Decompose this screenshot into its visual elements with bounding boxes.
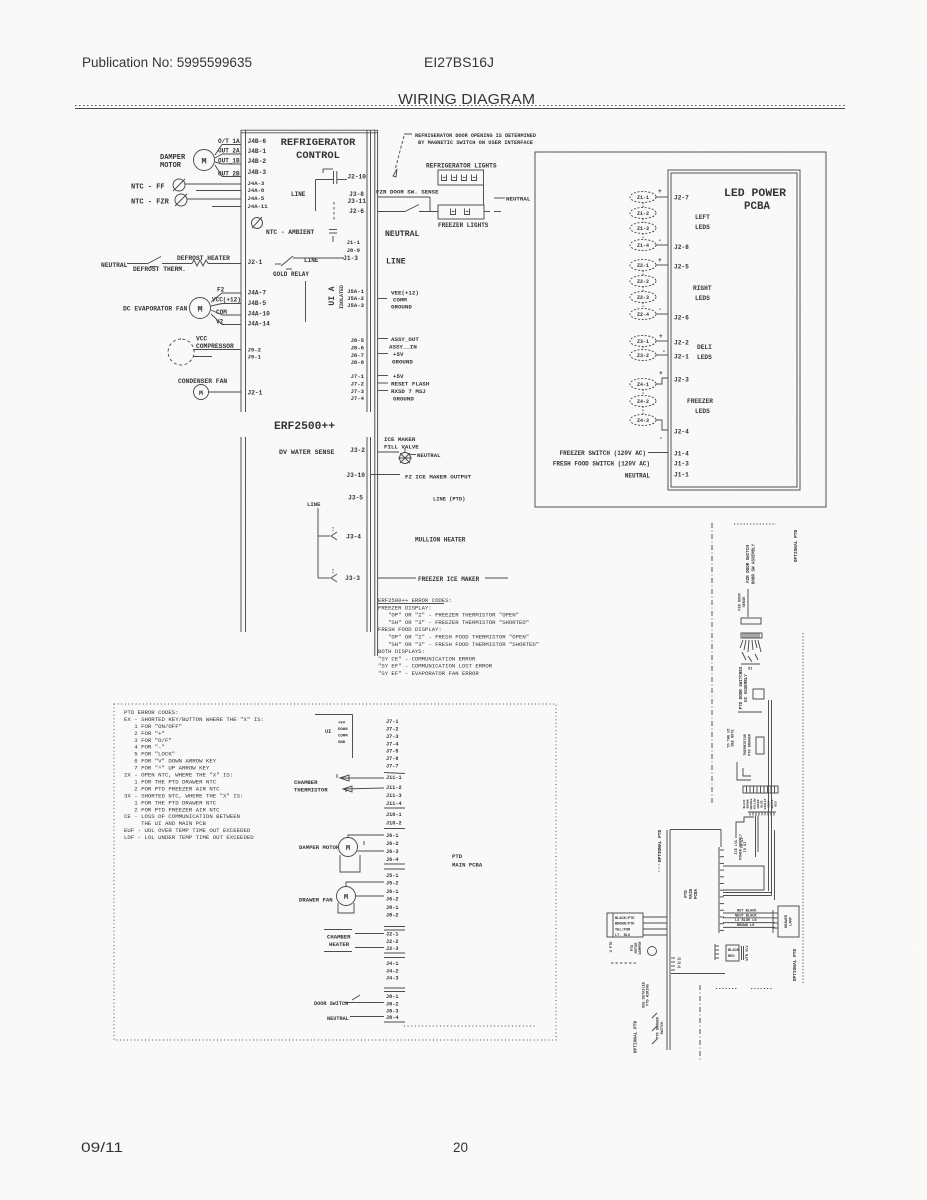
separator line 2: [384, 807, 405, 809]
svg-text:BROWN/PTD: BROWN/PTD: [615, 922, 635, 927]
svg-text:J5-2: J5-2: [386, 881, 398, 887]
chamber thermistor wires: [340, 777, 384, 779]
svg-text:J4B-5: J4B-5: [248, 300, 267, 307]
damper motor ptd wires: [348, 835, 384, 838]
svg-text:J1-3: J1-3: [343, 255, 358, 262]
svg-text:REFRIGERATOR DOOR OPENING IS D: REFRIGERATOR DOOR OPENING IS DETERMINED: [415, 133, 536, 139]
svg-text:"SY EF" - COMMUNICATION LOST E: "SY EF" - COMMUNICATION LOST ERROR: [378, 663, 493, 670]
wire under block a: [738, 711, 762, 713]
svg-text:FZR DOOR SWITCH: FZR DOOR SWITCH: [747, 545, 751, 583]
led power outer box: [535, 152, 826, 507]
svg-text:J4B-6: J4B-6: [248, 138, 267, 145]
svg-text:ERF2500++ ERROR CODES:: ERF2500++ ERROR CODES:: [378, 597, 452, 604]
svg-text:J8-6: J8-6: [351, 345, 365, 352]
svg-text:J8-2: J8-2: [386, 1002, 398, 1008]
svg-text:2 FOR PTD FREEZER AIR NTC: 2 FOR PTD FREEZER AIR NTC: [124, 785, 220, 792]
svg-text:NTC - FZR: NTC - FZR: [131, 199, 170, 207]
svg-text:LED POWER: LED POWER: [724, 188, 786, 200]
svg-text:FREEZER ICE MAKER: FREEZER ICE MAKER: [418, 576, 480, 583]
svg-text:J11-3: J11-3: [386, 793, 402, 799]
right dense section: [607, 523, 803, 1062]
svg-text:POWER SUPPLY: POWER SUPPLY: [740, 833, 744, 860]
led Z3-1: [630, 336, 656, 347]
svg-text:J6-1: J6-1: [386, 889, 398, 895]
separator double 4: [384, 987, 405, 989]
led Z2-2: [630, 276, 656, 287]
svg-text:VCC: VCC: [196, 336, 208, 343]
svg-text:J1-4: J1-4: [674, 451, 689, 458]
svg-text:ICE LVL: ICE LVL: [735, 839, 739, 854]
svg-text:+: +: [659, 370, 663, 377]
svg-text:J4A-14: J4A-14: [248, 321, 271, 328]
harness wires: [643, 916, 667, 918]
svg-text:J2-6: J2-6: [349, 208, 364, 215]
svg-text:NEUTRAL: NEUTRAL: [385, 230, 419, 239]
svg-text:TO UI: TO UI: [744, 842, 748, 853]
svg-text:Z3-1: Z3-1: [637, 339, 649, 345]
lamp symbols freezer: [451, 209, 456, 215]
svg-text:J9-1: J9-1: [248, 354, 262, 361]
drawer fan wires: [346, 882, 384, 887]
svg-text:J4A-5: J4A-5: [248, 195, 265, 202]
refrigerator control box border left: [240, 130, 242, 412]
relay arrow freezer ice maker: [331, 574, 337, 582]
footer: [81, 1140, 468, 1155]
wire Z3-1 to J2-2: [656, 340, 668, 342]
dotted vertical below optional: [658, 845, 660, 872]
defrost wire to box: [208, 263, 241, 265]
freezer lights box: [438, 205, 484, 219]
svg-text:J11-1: J11-1: [386, 775, 402, 781]
svg-text:+: +: [659, 333, 663, 340]
svg-text:J2-3: J2-3: [386, 946, 398, 952]
svg-text:J8-9: J8-9: [347, 247, 361, 254]
ntc fzr wires: [187, 198, 241, 200]
gold relay wire down: [305, 281, 307, 322]
svg-text:FRESH FOOD SWITCH (120V AC): FRESH FOOD SWITCH (120V AC): [553, 461, 650, 468]
led Z4-3: [630, 415, 656, 426]
svg-text:J4-1: J4-1: [386, 961, 398, 967]
svg-text:FZ ICE MAKER OUTPUT: FZ ICE MAKER OUTPUT: [405, 474, 472, 481]
relay arrow mullion: [331, 532, 337, 540]
connector bar: [741, 618, 761, 624]
svg-text:COMM: COMM: [338, 735, 348, 739]
svg-text:J2-5: J2-5: [674, 264, 689, 271]
svg-text:J8-7: J8-7: [351, 352, 364, 359]
svg-text:UI: UI: [748, 668, 752, 672]
svg-text:RED: RED: [728, 955, 735, 959]
svg-text:ASSY__IN: ASSY__IN: [389, 344, 417, 351]
svg-text:LINE: LINE: [307, 501, 321, 508]
svg-text:LEDS: LEDS: [697, 354, 712, 361]
svg-text:NTC - AMBIENT: NTC - AMBIENT: [266, 229, 315, 236]
svg-text:NEUTRAL: NEUTRAL: [625, 473, 651, 480]
svg-text:LEDS: LEDS: [695, 224, 710, 231]
step wires to rail: [736, 817, 754, 838]
wire neutral line lower: [378, 211, 405, 213]
svg-text:PCBA: PCBA: [695, 888, 699, 899]
gold relay contact: [275, 263, 281, 265]
damper motor ptd circle: [339, 838, 358, 857]
connector comb 1: [741, 633, 762, 638]
svg-text:2X - OPEN NTC, WHERE THE "X" I: 2X - OPEN NTC, WHERE THE "X" IS:: [124, 772, 233, 779]
svg-text:DEFROST HEATER: DEFROST HEATER: [177, 255, 230, 262]
note leader line: [404, 133, 412, 135]
svg-text:SENSE: SENSE: [743, 596, 747, 608]
fill valve symbol: [400, 453, 411, 464]
svg-text:OUT 2A: OUT 2A: [218, 148, 240, 155]
small connector block b: [756, 737, 764, 754]
svg-text:J2-1: J2-1: [248, 390, 263, 397]
ntc ff wires: [185, 183, 241, 185]
svg-text:F2: F2: [217, 287, 225, 294]
svg-text:J7-6: J7-6: [386, 756, 398, 762]
svg-text:-: -: [658, 237, 662, 244]
svg-text:Z1-3: Z1-3: [637, 226, 649, 232]
condenser fan M: [194, 385, 209, 400]
svg-text:+5V: +5V: [393, 351, 404, 358]
dc evaporator fan M: [190, 298, 211, 319]
svg-text:CONDENSER FAN: CONDENSER FAN: [178, 378, 227, 385]
svg-text:NEUTRAL: NEUTRAL: [327, 1016, 349, 1022]
led Z3-2: [630, 350, 656, 361]
small connector bottom left of rail: [714, 944, 716, 960]
svg-text:UI: UI: [325, 729, 331, 735]
wire freezer ice maker: [378, 577, 416, 579]
svg-text:DRAWER FAN: DRAWER FAN: [299, 897, 333, 904]
svg-text:LEDS: LEDS: [695, 408, 710, 415]
scan noise overlay: [0, 0, 1, 1]
svg-text:J7-2: J7-2: [386, 727, 398, 733]
left components: [101, 138, 241, 400]
svg-text:J2-1: J2-1: [674, 354, 689, 361]
svg-text:PTD DRAWER: PTD DRAWER: [749, 733, 753, 755]
ptd box dotted border: [114, 704, 556, 1040]
comb3 drop wires: [755, 816, 757, 858]
svg-text:VEE(+12): VEE(+12): [391, 290, 419, 297]
svg-text:"OP" OR "2" - FREEZER THERMIST: "OP" OR "2" - FREEZER THERMISTOR "OPEN": [378, 612, 519, 619]
separator double 1: [384, 863, 405, 865]
svg-text:Z2-3: Z2-3: [637, 295, 649, 301]
svg-text:J7-2: J7-2: [351, 381, 365, 388]
svg-text:GROUND: GROUND: [391, 304, 412, 311]
svg-text:GROUND: GROUND: [393, 396, 414, 403]
svg-text:DAMPER MOTOR: DAMPER MOTOR: [299, 844, 340, 851]
svg-text:J4-3: J4-3: [386, 976, 398, 982]
svg-text:J4-2: J4-2: [386, 969, 398, 975]
svg-text:LEFT: LEFT: [695, 214, 710, 221]
svg-text:COMM: COMM: [393, 297, 407, 304]
svg-text:+5V: +5V: [338, 722, 346, 726]
svg-text:BROWN LG: BROWN LG: [737, 924, 754, 928]
svg-text:PTD ERROR CODES:: PTD ERROR CODES:: [124, 709, 179, 716]
wire Z1-1 to J2-7: [656, 196, 668, 198]
damper motor M: [194, 150, 215, 171]
step wires upper: [737, 762, 751, 780]
svg-text:Publication No: 5995599635: Publication No: 5995599635: [82, 55, 252, 70]
svg-text:THERMISTOR: THERMISTOR: [744, 733, 748, 755]
drawer fan circle: [337, 887, 356, 906]
svg-text:J3-3: J3-3: [345, 575, 360, 582]
svg-text:Z4-1: Z4-1: [637, 382, 649, 388]
svg-text:DEFROST THERM.: DEFROST THERM.: [133, 266, 186, 273]
svg-text:M: M: [197, 305, 202, 315]
svg-text:J1-1: J1-1: [674, 472, 689, 479]
svg-text:GROUND: GROUND: [392, 359, 413, 366]
separator line 1: [384, 773, 405, 774]
ptd box: [114, 704, 556, 1040]
svg-text:4 FOR "-": 4 FOR "-": [124, 744, 165, 751]
svg-text:NEUTRAL: NEUTRAL: [506, 196, 531, 203]
svg-text:L4 BLUE LG: L4 BLUE LG: [735, 919, 757, 923]
wire Z4-1 to J2-3: [656, 378, 668, 384]
led chain link Z3: [642, 347, 644, 350]
ntc ff thermistor: [173, 179, 185, 191]
led power pcba box double border: [668, 170, 800, 490]
svg-text:OPTIONAL PTD: OPTIONAL PTD: [633, 1020, 639, 1053]
svg-text:J8-5: J8-5: [351, 337, 365, 344]
svg-text:CHAMBER: CHAMBER: [294, 779, 318, 786]
wire Z3-2 to J2-1: [656, 354, 668, 356]
svg-text:J3-4: J3-4: [346, 534, 361, 541]
svg-text:Z1-4: Z1-4: [637, 243, 649, 249]
svg-text:MAIN PCBA: MAIN PCBA: [452, 862, 483, 869]
led Z2-1: [630, 260, 656, 271]
svg-text:FREEZER: FREEZER: [687, 398, 713, 405]
svg-text:DOOR SW ASSEMBLY: DOOR SW ASSEMBLY: [753, 543, 757, 584]
svg-text:M: M: [201, 157, 206, 167]
wire to fill valve: [378, 451, 399, 453]
svg-text:J6-4: J6-4: [386, 857, 398, 863]
svg-text:20: 20: [453, 1140, 468, 1155]
svg-text:FREEZER DISPLAY:: FREEZER DISPLAY:: [378, 604, 432, 611]
svg-text:J5A-2: J5A-2: [347, 295, 364, 302]
svg-text:J4B-1: J4B-1: [248, 148, 267, 155]
svg-text:09/11: 09/11: [81, 1140, 123, 1155]
svg-text:J2-1: J2-1: [248, 259, 263, 266]
relay coil dashes: [333, 202, 335, 222]
svg-text:J7-1: J7-1: [351, 373, 365, 380]
led Z1-1: [630, 192, 656, 203]
dash-dot vertical lower: [699, 985, 701, 1062]
branch mullion: [318, 535, 330, 537]
svg-text:"SY EF" - EVAPORATOR FAN ERROR: "SY EF" - EVAPORATOR FAN ERROR: [378, 670, 479, 677]
svg-text:J7-4: J7-4: [351, 395, 365, 402]
pin ticks column: [671, 957, 675, 959]
svg-text:Z2-2: Z2-2: [637, 279, 649, 285]
svg-text:Z3-2: Z3-2: [637, 353, 649, 359]
wire lower horizontal: [671, 973, 725, 975]
svg-text:J7-1: J7-1: [386, 719, 398, 725]
svg-text:BY MAGNETIC SWITCH ON USER INT: BY MAGNETIC SWITCH ON USER INTERFACE: [418, 140, 533, 146]
svg-text:LOF - LOL UNDER TEMP TIME OUT: LOF - LOL UNDER TEMP TIME OUT EXCEEDED: [124, 834, 254, 841]
svg-text:REFRIGERATOR LIGHTS: REFRIGERATOR LIGHTS: [426, 163, 497, 170]
svg-text:GND: GND: [338, 741, 346, 745]
labeled wires to lamp: [723, 912, 775, 914]
svg-text:PTD WIRING: PTD WIRING: [647, 984, 651, 1006]
svg-text:DOOR SWITCH: DOOR SWITCH: [314, 1001, 348, 1007]
drawer lamp box: [778, 906, 799, 937]
svg-text:OPTIONAL PTD: OPTIONAL PTD: [657, 829, 663, 862]
svg-text:REFRIGERATOR: REFRIGERATOR: [281, 137, 357, 149]
svg-text:CONTROL: CONTROL: [296, 150, 340, 162]
led chain links Z4: [642, 390, 644, 396]
optional boundary dotted vertical: [802, 633, 804, 985]
svg-text:MOTOR: MOTOR: [160, 162, 182, 170]
svg-text:J2-10: J2-10: [347, 174, 366, 181]
small connector block a: [753, 689, 764, 699]
vee comm ground labels: [378, 298, 387, 300]
svg-text:J1-1: J1-1: [347, 239, 361, 246]
svg-text:BLACK: BLACK: [728, 949, 740, 953]
svg-text:J4A-7: J4A-7: [248, 290, 267, 297]
relay contact horizontal bars: [329, 229, 337, 231]
svg-text:J5A-1: J5A-1: [347, 288, 364, 295]
led Z4-1: [630, 379, 656, 390]
relay contact bars: [333, 171, 335, 184]
svg-text:M: M: [344, 894, 348, 902]
svg-text:J7-3: J7-3: [351, 388, 365, 395]
svg-text:J7-4: J7-4: [386, 742, 398, 748]
svg-text:J8-4: J8-4: [386, 1015, 398, 1021]
svg-text:J2-4: J2-4: [674, 429, 689, 436]
svg-text:HOT BLACK: HOT BLACK: [737, 910, 757, 914]
svg-text:BOTH DISPLAYS:: BOTH DISPLAYS:: [378, 648, 425, 655]
svg-text:DAMPER: DAMPER: [639, 941, 643, 955]
flash group labels: [378, 375, 388, 377]
svg-text:Z4-3: Z4-3: [637, 418, 649, 424]
optional boundary dash-dot vertical upper: [711, 523, 713, 803]
svg-text:PTD: PTD: [685, 890, 689, 898]
led Z2-3: [630, 292, 656, 303]
svg-text:FILL VALVE: FILL VALVE: [384, 444, 419, 451]
svg-text:"SY CE" - COMMUNICATION ERROR: "SY CE" - COMMUNICATION ERROR: [378, 655, 476, 662]
svg-text:J4A-8: J4A-8: [248, 187, 265, 194]
svg-text:J3-2: J3-2: [350, 447, 365, 454]
svg-text:J5-1: J5-1: [386, 873, 398, 879]
svg-text:FRESH FOOD DISPLAY:: FRESH FOOD DISPLAY:: [378, 626, 442, 633]
svg-text:MULLION HEATER: MULLION HEATER: [415, 537, 466, 544]
svg-text:LINE: LINE: [291, 191, 306, 198]
svg-text:LEDS: LEDS: [695, 295, 710, 302]
defrost thermostat contact: [147, 257, 161, 265]
svg-text:OPTIONAL PTD: OPTIONAL PTD: [793, 529, 799, 562]
water valve box: [726, 945, 739, 961]
wire fan base line: [741, 663, 760, 665]
wire console switch: [747, 589, 749, 617]
condenser fan wire: [209, 391, 242, 393]
svg-text:UI ASSEMBLY: UI ASSEMBLY: [745, 674, 749, 702]
refrigerator control section: [241, 130, 378, 656]
svg-text:J10-2: J10-2: [386, 821, 402, 827]
internal line wire to J2-10: [323, 168, 333, 170]
dotted horizontals lower: [716, 988, 737, 990]
svg-text:CE - LOSS OF COMMUNICATION BET: CE - LOSS OF COMMUNICATION BETWEEN: [124, 813, 240, 820]
compressor wires: [193, 349, 241, 351]
svg-text:J2-2: J2-2: [386, 939, 398, 945]
wire Z1-4 to J2-8: [656, 244, 668, 246]
svg-text:PTD DRAWER: PTD DRAWER: [657, 1016, 661, 1038]
bus wires vertical: [768, 700, 770, 891]
svg-text:J4B-3: J4B-3: [248, 169, 267, 176]
svg-text:GOLD RELAY: GOLD RELAY: [273, 271, 309, 278]
svg-text:J2-8: J2-8: [674, 244, 689, 251]
svg-text:DC EVAPORATOR FAN: DC EVAPORATOR FAN: [123, 306, 187, 313]
svg-text:COMPRESSOR: COMPRESSOR: [196, 343, 234, 350]
svg-text:J2-2: J2-2: [674, 340, 689, 347]
svg-text:J6-2: J6-2: [386, 897, 398, 903]
svg-text:J8-2: J8-2: [386, 913, 398, 919]
svg-text:ICE MAKER: ICE MAKER: [384, 436, 416, 443]
svg-text:MAIN: MAIN: [690, 888, 694, 899]
svg-text:RESET FLASH: RESET FLASH: [391, 381, 430, 388]
svg-text:J3-11: J3-11: [347, 198, 366, 205]
svg-text:SWITCH: SWITCH: [661, 1022, 665, 1035]
separator double 3: [384, 952, 405, 954]
svg-text:PCBA: PCBA: [744, 201, 770, 213]
connector comb 2: [743, 786, 778, 793]
svg-text:FZR DOOR SW. SENSE: FZR DOOR SW. SENSE: [376, 189, 439, 196]
wire contact to rail: [337, 179, 347, 181]
svg-text:NEUT BLACK: NEUT BLACK: [735, 914, 757, 918]
wire Z2-1 to J2-5: [656, 264, 668, 266]
svg-text:Z4-2: Z4-2: [637, 399, 649, 405]
svg-text:J8-8: J8-8: [351, 359, 365, 366]
svg-text:J3-10: J3-10: [346, 472, 365, 479]
svg-text:+5V: +5V: [393, 373, 404, 380]
door switch wire: [344, 1002, 384, 1004]
svg-text:J4B-2: J4B-2: [248, 158, 267, 165]
pin J1-4: [648, 452, 668, 454]
svg-text:J7-7: J7-7: [386, 764, 398, 770]
led Z1-3: [630, 223, 656, 234]
svg-text:LINE: LINE: [386, 258, 406, 267]
refrigerator control box border right: [366, 130, 368, 412]
header publication number: [75, 55, 845, 109]
svg-text:M: M: [346, 845, 350, 853]
svg-text:HEATER: HEATER: [329, 941, 350, 948]
ptd damper motor circle: [648, 947, 657, 956]
svg-text:BLACK/PTD: BLACK/PTD: [615, 916, 635, 921]
dashed wire: [611, 962, 637, 964]
svg-text:J1: J1: [677, 965, 681, 969]
svg-text:"OP" OR "2" - FRESH FOOD THERM: "OP" OR "2" - FRESH FOOD THERMISTOR "OPE…: [378, 634, 529, 641]
wire valve to neutral: [410, 454, 416, 456]
svg-text:J8-1: J8-1: [386, 994, 398, 1000]
svg-text:Z2-1: Z2-1: [637, 263, 649, 269]
svg-text:NEUTRAL: NEUTRAL: [417, 452, 441, 459]
svg-text:SEE NOTE: SEE NOTE: [732, 729, 736, 747]
svg-text:"SH" OR "3" - FRESH FOOD THERM: "SH" OR "3" - FRESH FOOD THERMISTOR "SHO…: [378, 641, 539, 648]
svg-text:NEUTRAL: NEUTRAL: [101, 262, 128, 269]
svg-text:DRAWER: DRAWER: [785, 914, 789, 928]
ui bracket component: [315, 714, 353, 716]
svg-text:J10-1: J10-1: [386, 812, 402, 818]
svg-text:RED: RED: [775, 801, 778, 807]
svg-text:NTC - FF: NTC - FF: [131, 184, 165, 192]
svg-text:1 FOR THE PTD DRAWER NTC: 1 FOR THE PTD DRAWER NTC: [124, 799, 217, 806]
svg-text:"SH" OR "3" - FREEZER THERMIST: "SH" OR "3" - FREEZER THERMISTOR "SHORTE…: [378, 619, 529, 626]
svg-text:OPTIONAL PTD: OPTIONAL PTD: [792, 948, 798, 981]
svg-text:RXSD 7 MSJ: RXSD 7 MSJ: [391, 388, 426, 395]
svg-text:6 FOR "V" DOWN ARROW KEY: 6 FOR "V" DOWN ARROW KEY: [124, 758, 217, 765]
defrost heater element: [162, 263, 192, 265]
wire fzr door sense: [378, 196, 430, 198]
dotted top line: [734, 523, 776, 525]
svg-text:WTR VLV: WTR VLV: [746, 945, 750, 961]
svg-text:ASSY_OUT: ASSY_OUT: [391, 336, 419, 343]
lights section: [376, 133, 536, 403]
